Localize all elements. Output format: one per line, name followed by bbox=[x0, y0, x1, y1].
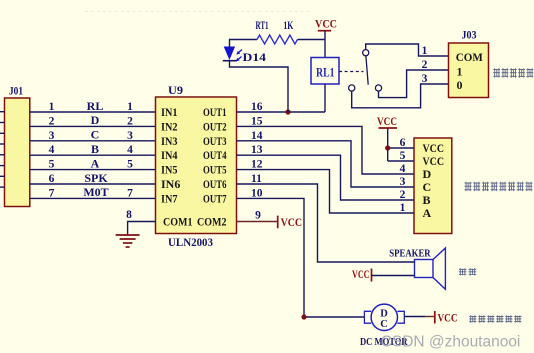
svg-text:OUT7: OUT7 bbox=[203, 191, 227, 205]
U9 right pin numbers 16-10 bbox=[251, 101, 263, 199]
wire LED anode to resistor bbox=[230, 40, 258, 47]
svg-text:16: 16 bbox=[251, 101, 263, 113]
svg-text:1: 1 bbox=[127, 101, 133, 113]
pin 8 number bbox=[126, 209, 132, 221]
svg-text:J03: J03 bbox=[462, 30, 477, 42]
wire RL1 to OUT1 net bbox=[324, 84, 326, 112]
note stepper interface (CJK) bbox=[465, 182, 533, 191]
svg-text:VCC: VCC bbox=[377, 116, 397, 128]
junction on stepper pin6 wire bbox=[385, 145, 390, 150]
svg-text:OUT1: OUT1 bbox=[203, 105, 227, 119]
svg-text:U9: U9 bbox=[168, 83, 183, 97]
wire OUT7 to motor bbox=[237, 198, 365, 317]
power port VCC (pin 9) bbox=[278, 216, 302, 229]
IC U9 ULN2003 bbox=[156, 83, 237, 249]
svg-text:9: 9 bbox=[255, 210, 261, 222]
wire NO to J03.2 bbox=[379, 70, 449, 98]
wire VCC node to RL1 bbox=[324, 40, 326, 58]
svg-text:OUT2: OUT2 bbox=[203, 119, 227, 133]
pin 9 number bbox=[255, 210, 261, 222]
wire OUT3 to stepper C bbox=[237, 141, 415, 187]
svg-text:VCC: VCC bbox=[423, 154, 445, 168]
wire OUT4 to stepper B bbox=[237, 155, 415, 200]
faint artifact line bbox=[85, 11, 310, 13]
svg-text:A: A bbox=[423, 206, 432, 220]
svg-text:VCC: VCC bbox=[352, 269, 370, 281]
svg-text:RL: RL bbox=[87, 99, 104, 113]
svg-text:2: 2 bbox=[400, 189, 406, 201]
relay switch common contact bbox=[363, 50, 369, 56]
note DC motor interface (CJK) bbox=[469, 315, 521, 322]
svg-text:C: C bbox=[380, 319, 388, 330]
svg-text:1: 1 bbox=[457, 65, 463, 79]
relay switch NC contact bbox=[349, 85, 355, 91]
relay switch NO contact bbox=[375, 85, 381, 91]
wire COM1 to ground bbox=[128, 222, 156, 235]
wire OUT5 to stepper A bbox=[237, 170, 415, 213]
svg-text:C: C bbox=[91, 128, 100, 142]
U9 pin names IN1-IN7 bbox=[161, 105, 180, 205]
wire net MOT (J01.7 to U9.7) bbox=[30, 197, 156, 199]
wire COM2 pin9 to VCC bbox=[237, 221, 278, 223]
wire net D (J01.2 to U9.2) bbox=[30, 125, 156, 127]
svg-text:1K: 1K bbox=[283, 20, 293, 32]
svg-text:D14: D14 bbox=[243, 50, 267, 64]
wire net OUT1 (pin 16 to relay) bbox=[237, 111, 326, 113]
svg-text:OUT3: OUT3 bbox=[203, 134, 227, 148]
svg-text:SPEAKER: SPEAKER bbox=[389, 248, 431, 260]
stepper connector pin names bbox=[423, 141, 445, 220]
svg-text:IN3: IN3 bbox=[161, 134, 178, 148]
wire net C (J01.3 to U9.3) bbox=[30, 140, 156, 142]
relay switch blade bbox=[366, 56, 368, 85]
stepper connector pin numbers 6-1 bbox=[400, 137, 406, 214]
svg-text:11: 11 bbox=[251, 173, 262, 185]
relay coil RL1 bbox=[311, 58, 339, 85]
svg-text:IN7: IN7 bbox=[161, 191, 178, 205]
wire OUT6 to speaker bbox=[237, 184, 415, 262]
wire common to J03.1 bbox=[366, 44, 449, 56]
svg-text:SPK: SPK bbox=[84, 171, 108, 185]
svg-text:D: D bbox=[91, 113, 100, 127]
svg-text:5: 5 bbox=[400, 150, 406, 162]
net labels RL D C B A SPK MOT bbox=[83, 99, 108, 199]
wire NC to J03.3 bbox=[352, 84, 449, 108]
svg-text:2: 2 bbox=[422, 59, 428, 71]
relay linkage dashed bbox=[339, 71, 364, 73]
wire motor to VCC bbox=[404, 316, 435, 318]
svg-text:RL1: RL1 bbox=[316, 66, 335, 80]
U9 pin numbers 1-5,7 bbox=[127, 101, 133, 199]
svg-text:COM2: COM2 bbox=[197, 215, 227, 229]
svg-text:OUT5: OUT5 bbox=[203, 163, 227, 177]
power port VCC (top) bbox=[315, 19, 337, 40]
svg-text:VCC: VCC bbox=[281, 217, 303, 229]
svg-text:2: 2 bbox=[127, 115, 133, 127]
svg-text:7: 7 bbox=[127, 187, 133, 199]
J01 left pin stubs bbox=[0, 112, 5, 187]
svg-text:0: 0 bbox=[457, 78, 463, 92]
svg-text:3: 3 bbox=[400, 176, 406, 188]
svg-text:IN2: IN2 bbox=[161, 119, 178, 133]
wire OUT2 to stepper D bbox=[237, 126, 415, 174]
svg-text:IN1: IN1 bbox=[161, 105, 178, 119]
wire net A (J01.5 to U9.5) bbox=[30, 169, 156, 171]
wire resistor to VCC node bbox=[298, 39, 326, 41]
svg-text:3: 3 bbox=[49, 130, 55, 142]
svg-text:VCC: VCC bbox=[438, 313, 458, 325]
svg-text:1: 1 bbox=[422, 45, 428, 57]
power port VCC (motor) bbox=[435, 311, 458, 325]
resistor RT1 1K bbox=[256, 20, 298, 44]
U9 pin names COM1 COM2 bbox=[163, 215, 227, 229]
note speaker (CJK) bbox=[459, 268, 476, 275]
svg-text:COM1: COM1 bbox=[163, 215, 193, 229]
svg-text:VCC: VCC bbox=[423, 141, 445, 155]
svg-text:10: 10 bbox=[251, 187, 263, 199]
svg-text:CSDN @zhoutanooi: CSDN @zhoutanooi bbox=[381, 334, 521, 351]
speaker LS bbox=[389, 248, 445, 290]
svg-text:7: 7 bbox=[49, 187, 55, 199]
svg-text:B: B bbox=[91, 142, 99, 156]
svg-text:J01: J01 bbox=[9, 84, 23, 98]
svg-text:VCC: VCC bbox=[315, 19, 337, 31]
svg-text:15: 15 bbox=[251, 115, 263, 127]
connector J01 bbox=[5, 84, 30, 207]
wire net SPK (J01.6 to U9.6) bbox=[30, 183, 156, 185]
connector J03 bbox=[449, 30, 489, 98]
wire net B (J01.4 to U9.4) bbox=[30, 154, 156, 156]
svg-text:6: 6 bbox=[49, 173, 55, 185]
svg-text:OUT6: OUT6 bbox=[203, 177, 227, 191]
svg-text:C: C bbox=[423, 180, 432, 194]
svg-text:12: 12 bbox=[251, 159, 263, 171]
svg-text:3: 3 bbox=[422, 73, 428, 85]
svg-text:4: 4 bbox=[127, 144, 133, 156]
junction on OUT1 net bbox=[285, 109, 290, 114]
watermark bbox=[381, 334, 521, 351]
svg-text:D: D bbox=[380, 309, 388, 320]
svg-text:5: 5 bbox=[49, 159, 55, 171]
svg-text:COM: COM bbox=[456, 50, 483, 64]
svg-text:3: 3 bbox=[127, 130, 133, 142]
wire VCC to speaker bbox=[372, 275, 415, 277]
wire LED branch bbox=[230, 61, 289, 112]
svg-text:M0T: M0T bbox=[83, 185, 108, 199]
svg-text:2: 2 bbox=[49, 115, 55, 127]
stepper motor driver connector bbox=[414, 138, 452, 234]
wire VCC to stepper pins 6,5 bbox=[388, 128, 414, 161]
svg-text:8: 8 bbox=[126, 209, 132, 221]
svg-text:ULN2003: ULN2003 bbox=[168, 235, 213, 249]
power port VCC (speaker) bbox=[352, 269, 372, 282]
wire net RL (J01.1 to U9.1) bbox=[30, 111, 156, 113]
J03 pin numbers 1-3 bbox=[422, 45, 428, 85]
svg-text:D: D bbox=[423, 167, 432, 181]
svg-text:1: 1 bbox=[49, 101, 55, 113]
svg-text:RT1: RT1 bbox=[256, 20, 269, 32]
power port VCC (stepper) bbox=[377, 116, 397, 128]
svg-text:OUT4: OUT4 bbox=[203, 148, 227, 162]
J01 pin numbers 1-7 bbox=[49, 101, 55, 199]
U9 pin names OUT1-OUT7 bbox=[203, 105, 227, 205]
svg-text:13: 13 bbox=[251, 144, 263, 156]
svg-text:5: 5 bbox=[127, 159, 133, 171]
note relay interface (CJK) bbox=[493, 68, 533, 77]
junction at motor wire corner bbox=[301, 314, 306, 319]
svg-text:1: 1 bbox=[400, 202, 406, 214]
svg-text:IN5: IN5 bbox=[161, 163, 178, 177]
svg-text:B: B bbox=[423, 193, 431, 207]
svg-text:IN6: IN6 bbox=[161, 177, 180, 191]
svg-text:4: 4 bbox=[400, 163, 406, 175]
LED D14 bbox=[223, 47, 266, 65]
ground bbox=[116, 235, 140, 247]
svg-text:4: 4 bbox=[49, 144, 55, 156]
svg-text:A: A bbox=[91, 156, 100, 170]
svg-text:14: 14 bbox=[251, 130, 263, 142]
motor DC MOTOR bbox=[360, 304, 408, 348]
svg-text:IN4: IN4 bbox=[161, 148, 178, 162]
svg-text:6: 6 bbox=[400, 137, 406, 149]
